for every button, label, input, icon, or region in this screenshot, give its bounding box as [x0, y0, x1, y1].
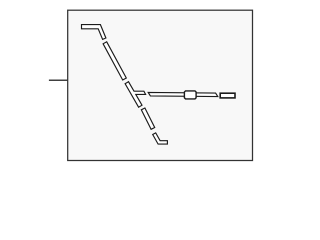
molding strip segment 6 (bottom, bent foot)	[153, 133, 168, 144]
molding strip segment 5 (lower diagonal)	[141, 108, 154, 129]
page background	[0, 0, 300, 171]
molding strip segment 3 (Y piece with side arm)	[125, 82, 146, 108]
clip on horizontal rail	[184, 91, 196, 99]
molding strip segment 2 (long diagonal)	[103, 42, 126, 80]
diagram frame box	[68, 10, 253, 160]
end piece rectangle (right)	[220, 93, 235, 98]
callout leader line	[49, 79, 68, 81]
molding strip segment 4 (horizontal rail)	[148, 92, 218, 96]
molding strip segment 1 (top, bent)	[82, 25, 106, 40]
